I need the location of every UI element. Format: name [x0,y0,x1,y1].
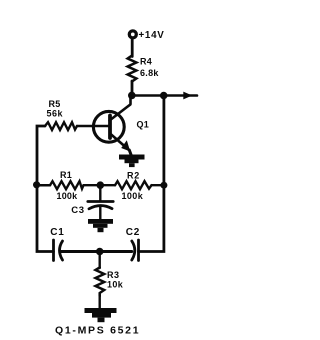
emitter arrowhead [121,140,130,151]
resistor R1 [50,181,84,189]
svg-text:C2: C2 [126,227,140,238]
terminal +14V [129,31,136,38]
ground emitter [119,155,145,168]
wire emitter lead [110,134,129,151]
node right-rail junction [160,92,168,100]
wire middle rail left segment [37,184,50,187]
label R3 value 10k [107,270,124,290]
wire middle rail right segment [152,184,165,186]
resistor R3 [96,268,105,297]
node middle rail left [33,181,40,188]
svg-text:100k: 100k [122,191,144,201]
wire bottom rail center [61,250,132,253]
label R1 value 100k [57,170,79,201]
wire collector lead [110,96,131,121]
svg-text:R1: R1 [60,170,72,180]
svg-text:R4: R4 [140,57,152,67]
wire C3 top [99,185,101,200]
label R5 value 56k [47,99,64,119]
svg-text:R2: R2 [127,171,140,181]
node C3 junction [97,181,105,189]
ground C3 [88,219,113,232]
svg-text:R3: R3 [107,270,120,280]
wire base lead [77,125,109,127]
node R3 junction [96,248,104,256]
transistor Q1 [93,111,124,142]
capacitor C1 [54,240,63,261]
wire R4 to collector node [131,81,134,96]
svg-text:Q1-MPS 6521: Q1-MPS 6521 [55,325,140,337]
resistor R4 [128,56,137,82]
label R2 value 100k [122,171,144,202]
wire emitter to ground [129,150,131,156]
resistor R2 [115,181,152,189]
svg-text:10k: 10k [107,280,124,290]
label R4 value 6.8k [140,57,159,79]
wire C3 to ground [99,207,101,220]
svg-text:C3: C3 [71,205,84,216]
capacitor C2 [132,240,139,261]
svg-text:100k: 100k [57,191,79,201]
svg-text:R5: R5 [49,99,61,109]
ground R3 [85,308,117,322]
wire R3 to ground [98,295,100,309]
node middle rail right [160,182,167,189]
resistor R5 [45,122,77,130]
wire left rail [37,126,54,252]
svg-text:6.8k: 6.8k [140,68,159,78]
svg-text:+14V: +14V [139,30,165,41]
wire right rail [139,96,164,252]
output arrow [183,92,192,100]
svg-text:Q1: Q1 [137,120,150,130]
capacitor C3 [88,202,113,209]
wire middle rail center segment [84,184,116,186]
wire supply to R4 [131,39,134,57]
wire output line [132,94,197,97]
svg-text:56k: 56k [47,109,64,119]
wire R3 top [98,252,100,269]
svg-text:C1: C1 [50,227,64,238]
node collector junction [128,92,136,100]
